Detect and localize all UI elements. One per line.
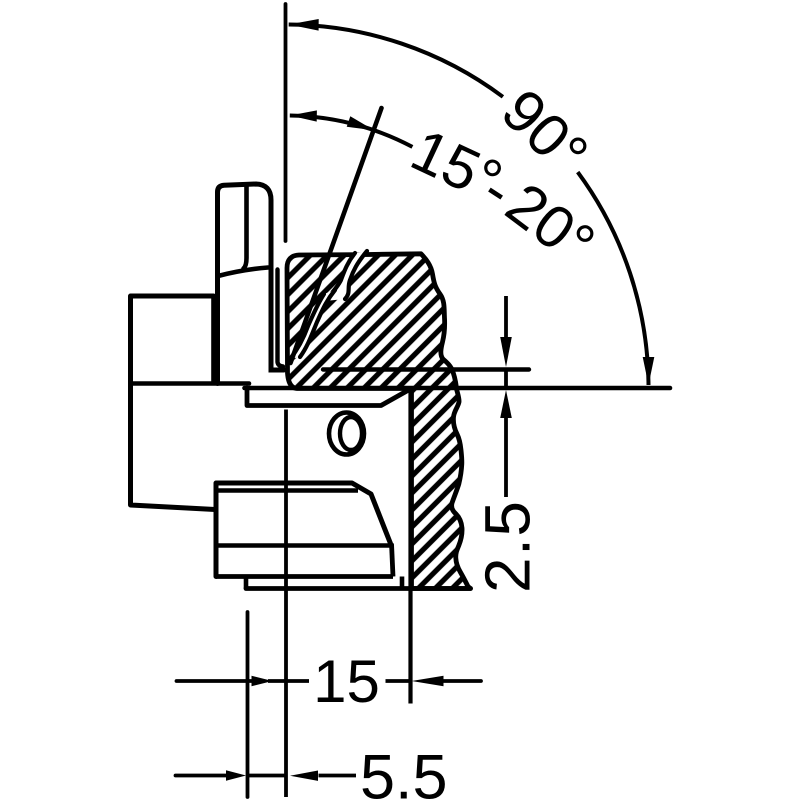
body step line [131, 381, 250, 386]
svg-text:2.5: 2.5 [472, 500, 544, 593]
hatched blade section [287, 254, 471, 589]
screw hole oval [329, 413, 364, 455]
surface line [245, 386, 671, 391]
centerline top [284, 4, 288, 241]
svg-text:15: 15 [313, 648, 380, 715]
dim 5.5 [176, 774, 229, 778]
dim 2.5 [504, 296, 508, 340]
blade angle line [291, 108, 382, 363]
inner slot line [278, 270, 284, 367]
centerline bottom [284, 410, 288, 798]
knob waist line [218, 268, 268, 277]
ext line 5.5 [246, 612, 250, 797]
15-20 deg arc [290, 116, 413, 147]
break line squiggle 2 [290, 290, 335, 359]
left block [131, 296, 216, 510]
90 deg arc [289, 25, 503, 97]
break line squiggle 1 [325, 251, 367, 301]
knob / lever [218, 184, 285, 384]
dim 15 [177, 679, 254, 683]
base plate [244, 577, 249, 589]
svg-text:5.5: 5.5 [360, 743, 448, 800]
clamp block [216, 483, 391, 577]
bracket lip below surface [247, 388, 410, 406]
ext line 15 [408, 390, 412, 704]
blade edge line [323, 367, 529, 371]
